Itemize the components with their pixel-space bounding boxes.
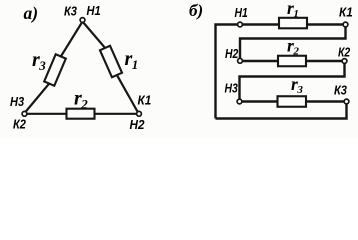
node K3/H1 (apex terminal) xyxy=(80,18,85,23)
wire r1 to node K1/H2 (right side lower) xyxy=(117,75,138,113)
svg-text:К1: К1 xyxy=(339,5,353,20)
resistor r1 xyxy=(100,46,122,77)
svg-text:Н3: Н3 xyxy=(225,81,239,95)
resistor r2 xyxy=(278,56,306,67)
node K2 xyxy=(342,59,347,64)
wire K1 down and across to H2 xyxy=(240,27,346,58)
wire left vertical loop return xyxy=(216,25,239,119)
resistor r1 xyxy=(279,18,307,29)
svg-text:Н3: Н3 xyxy=(10,94,24,109)
node H1 xyxy=(238,22,243,27)
svg-text:К1: К1 xyxy=(138,93,152,108)
resistor r2 xyxy=(67,109,95,119)
node H3/K2 (bottom-left terminal) xyxy=(22,111,27,116)
wire r3 to node H3/K2 (left side lower) xyxy=(25,83,49,112)
svg-text:Н2: Н2 xyxy=(130,117,145,132)
wire H2 to r2 xyxy=(242,60,278,62)
resistor r3 xyxy=(44,54,66,85)
svg-text:Н1: Н1 xyxy=(87,3,101,18)
node K3 xyxy=(344,99,349,104)
svg-text:К2: К2 xyxy=(338,45,351,59)
resistor r3 xyxy=(278,96,307,107)
wire H3 to r3 xyxy=(242,100,278,102)
node K1 xyxy=(343,22,348,27)
wire K3 down to bottom return xyxy=(216,104,347,119)
wire K2 down and across to H3 xyxy=(240,64,345,100)
node H2 xyxy=(238,58,243,63)
wire r1 to K1 xyxy=(307,23,344,25)
wire H1 to r1 xyxy=(242,23,279,25)
wire apex to r3 (left side upper) xyxy=(61,22,83,57)
node K1/H2 (bottom-right terminal) xyxy=(137,111,142,116)
wire apex to r1 (right side upper) xyxy=(83,22,106,49)
svg-text:К3: К3 xyxy=(64,4,77,19)
node H3 xyxy=(237,99,242,104)
svg-text:б): б) xyxy=(189,1,203,20)
wire r3 to K3 xyxy=(306,100,345,102)
svg-text:К2: К2 xyxy=(13,117,26,132)
svg-text:К3: К3 xyxy=(334,83,347,98)
svg-text:Н2: Н2 xyxy=(225,47,239,61)
svg-text:а): а) xyxy=(24,3,39,23)
wire r2 to K2 xyxy=(306,60,343,62)
wire bottom side xyxy=(26,113,137,115)
svg-text:Н1: Н1 xyxy=(235,6,248,20)
